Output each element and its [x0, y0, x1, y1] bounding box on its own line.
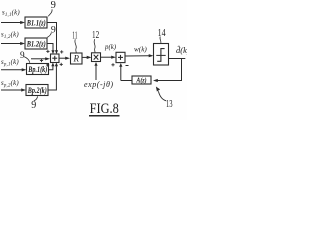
plus sign bottom-left of adder1: [46, 63, 49, 66]
wire exp to multiplier: [95, 66, 97, 81]
svg-text:sp,2(k): sp,2(k): [1, 80, 19, 89]
label 9 (B1.1): [51, 0, 56, 11]
filter block B1.2(z), ref 9: [25, 38, 47, 49]
wire A(z) to adder2 corner: [121, 80, 132, 82]
operator block R, ref 11: [71, 53, 83, 64]
leader 13 arrow to A(z): [158, 91, 166, 101]
wire adder2 to decision: [125, 55, 149, 57]
filter block B1.1(z), ref 9: [25, 17, 47, 28]
label 14: [158, 28, 167, 39]
svg-text:9: 9: [20, 50, 25, 60]
svg-text:R: R: [72, 53, 79, 63]
wire input 2: [1, 43, 21, 45]
filter block Bp.2(k), ref 9: [26, 85, 48, 96]
svg-text:9: 9: [51, 24, 56, 35]
plus sign left of adder2: [111, 63, 114, 66]
wire input 4: [1, 89, 22, 91]
label 12: [92, 30, 99, 41]
label 9 (B1.2): [51, 24, 56, 35]
wire Bp.1 to adder: [49, 66, 53, 70]
feedback filter A(z), ref 13: [132, 76, 151, 84]
wire X to adder2: [101, 56, 112, 58]
leader 9 to B1.2: [47, 33, 51, 38]
svg-text:s1,2(k): s1,2(k): [1, 32, 19, 41]
wire stub left input to adder: [31, 58, 46, 60]
node p(k) label: [104, 44, 117, 51]
plus sign top-right of adder1: [60, 50, 63, 53]
svg-text:Bp.1(k): Bp.1(k): [28, 65, 48, 74]
wire R to multiplier: [82, 56, 87, 58]
svg-text:9: 9: [51, 0, 56, 11]
node sp,2(k) input label: [1, 80, 19, 89]
wire input 1: [1, 22, 21, 24]
svg-text:d̂(k): d̂(k): [176, 44, 187, 55]
leader 11 to R: [75, 39, 76, 52]
label 13: [166, 99, 173, 110]
svg-text:A(z): A(z): [136, 77, 147, 85]
caption underline: [89, 115, 120, 117]
wire feedback down: [158, 59, 182, 81]
node d(k) output label: [176, 44, 190, 55]
node w(k) label: [134, 45, 147, 53]
adder 2: [116, 52, 125, 62]
svg-text:9: 9: [31, 100, 36, 111]
svg-text:13: 13: [166, 99, 173, 110]
svg-text:FIG.8: FIG.8: [90, 101, 119, 117]
svg-text:sp,1(k): sp,1(k): [1, 59, 19, 68]
svg-text:Bp.2(k): Bp.2(k): [27, 86, 47, 95]
decision device (slicer), ref 14: [154, 44, 169, 66]
caption FIG.8: [90, 101, 119, 117]
label 11: [72, 30, 77, 41]
wire Bp.2 to adder: [48, 66, 56, 90]
svg-text:s1,1(k): s1,1(k): [2, 10, 20, 19]
svg-text:B1.1(z): B1.1(z): [26, 18, 46, 27]
leader 9 to Bp.1: [24, 57, 30, 63]
leader 9 to B1.1: [48, 9, 52, 16]
label 9 (Bp.2): [31, 100, 36, 111]
svg-text:B1.2(z): B1.2(z): [26, 39, 46, 48]
leader 9 to Bp.2: [34, 96, 38, 101]
svg-text:w(k): w(k): [134, 45, 147, 53]
wire adder1 to R: [59, 57, 66, 59]
wire input 3: [1, 69, 22, 71]
leader 14 to decision box: [160, 37, 161, 44]
adder 1: [51, 54, 60, 63]
svg-text:14: 14: [158, 28, 167, 39]
multiplier X, ref 12: [92, 53, 101, 62]
wire B1.2 to adder: [47, 44, 53, 51]
minus sign right-below of adder2: [126, 65, 129, 67]
wire B1.1 to adder: [47, 23, 57, 51]
node sp,1(k) input label: [1, 59, 19, 68]
plus sign bottom-right of adder1: [60, 63, 63, 66]
svg-text:exp(-jθ): exp(-jθ): [84, 80, 114, 89]
wire decision output: [169, 58, 186, 60]
node exp(-j0) label: [84, 80, 114, 89]
plus sign left-below of adder1: [40, 59, 43, 62]
svg-text:p(k): p(k): [104, 44, 117, 51]
wire feedback into adder2 (up arrow): [120, 67, 122, 81]
leader 12 to X: [94, 39, 95, 52]
node s1,2(k) input label: [1, 32, 19, 41]
plus sign top-left of adder1: [46, 50, 49, 53]
filter block Bp.1(k), ref 9: [27, 64, 49, 75]
node s1,1(k) input label: [2, 10, 20, 19]
svg-text:12: 12: [92, 30, 99, 41]
label 9 (Bp.1): [20, 50, 25, 60]
